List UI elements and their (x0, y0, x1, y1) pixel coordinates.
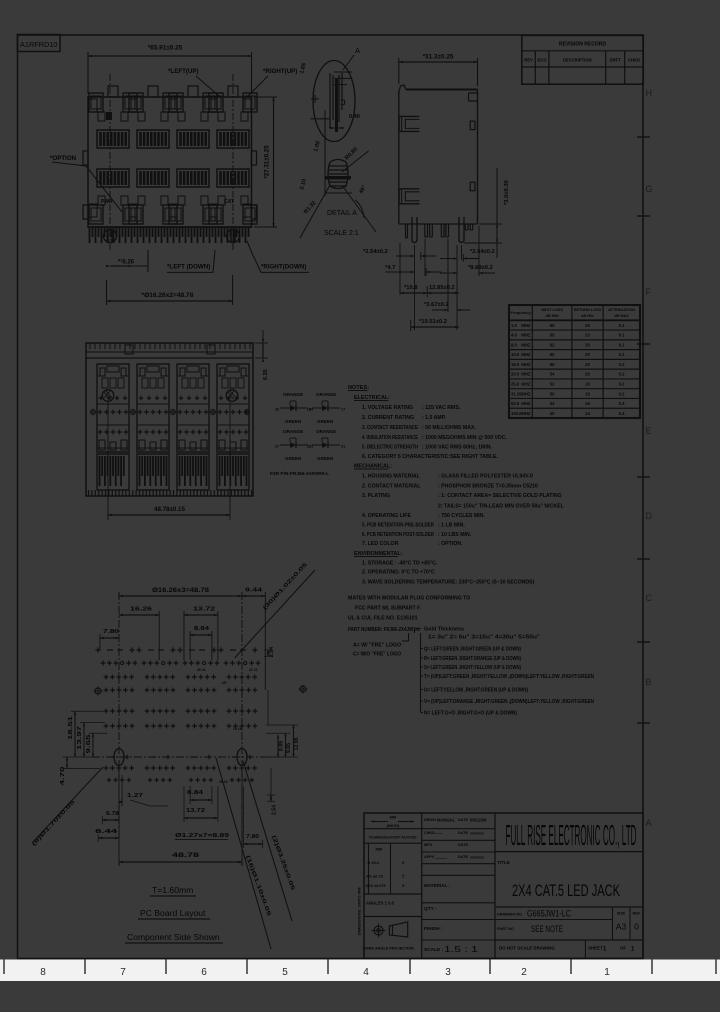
svg-text:4. OPERATING LIFE: 4. OPERATING LIFE (362, 513, 411, 519)
svg-text:TOLERANCES EXCEPT AS NOTED: TOLERANCES EXCEPT AS NOTED (369, 836, 417, 840)
svg-text:U= LEFT:YELLOW ,RIGHT:GREEN (U: U= LEFT:YELLOW ,RIGHT:GREEN (UP & DOWN) (424, 688, 528, 694)
svg-text:F: F (646, 287, 652, 297)
pcb dim 16.26x3=48.78 (119, 587, 242, 600)
svg-text:CHKD: CHKD (424, 831, 435, 835)
svg-text:B: B (646, 677, 652, 687)
svg-text:ATTENUATION: ATTENUATION (608, 308, 635, 312)
title block units cell (364, 815, 422, 829)
bottom view outline (86, 343, 253, 496)
svg-text:4: 4 (363, 967, 369, 978)
svg-text:ANGLES ± 0.5: ANGLES ± 0.5 (366, 901, 395, 906)
svg-text:UL & CUL FILE NO. E135101: UL & CUL FILE NO. E135101 (348, 616, 418, 622)
dimension 2.54 right (440, 249, 495, 262)
front view port windows row 1 (97, 130, 249, 148)
svg-text:MM: MM (390, 815, 397, 820)
svg-text:DRAWING NO.: DRAWING NO. (497, 913, 523, 917)
dimension 48.78 bottom view (108, 402, 230, 520)
svg-text:(INCH): (INCH) (387, 823, 400, 828)
svg-text:20: 20 (585, 342, 590, 347)
svg-text:REV: REV (633, 912, 641, 916)
side view latches (399, 116, 475, 203)
svg-text:62: 62 (550, 342, 555, 347)
svg-text:*OPTION: *OPTION (50, 155, 77, 162)
cat5 characteristics table (509, 305, 640, 418)
svg-text:PART NUMBER: FRJ66-2X4JW1-L: PART NUMBER: FRJ66-2X4JW1-L (348, 627, 421, 633)
sheet row (499, 940, 635, 959)
dimension 8.89 (440, 265, 495, 274)
svg-text:MM: MM (376, 847, 383, 852)
pcb dim 1.27x7=8.89 (175, 833, 230, 840)
side view extension lines (400, 226, 479, 330)
svg-text:ECO: ECO (538, 58, 548, 63)
svg-text:REVISION RECORD: REVISION RECORD (559, 42, 606, 48)
svg-text:3: 3 (445, 967, 451, 978)
svg-text:7.80: 7.80 (246, 834, 259, 840)
svg-text:18.51: 18.51 (68, 715, 74, 740)
svg-text:0.1: 0.1 (619, 323, 625, 328)
svg-text:: 1000 VAC RMS 60Hz, 1MIN.: : 1000 VAC RMS 60Hz, 1MIN. (422, 445, 493, 451)
svg-text:56: 56 (550, 362, 555, 367)
frame zone ticks right edge (637, 137, 650, 723)
drawing number cell (495, 909, 613, 920)
pcb caption (125, 885, 223, 943)
svg-text:Gold Thickness: Gold Thickness (424, 627, 464, 633)
svg-text:27: 27 (275, 445, 279, 449)
dimension 6.26 (106, 250, 148, 272)
svg-text:23: 23 (585, 333, 590, 338)
svg-text:A: A (355, 46, 360, 55)
zone letters right edge (646, 88, 653, 828)
svg-text:DATE: DATE (458, 855, 469, 859)
svg-text:*LEFT (DOWN): *LEFT (DOWN) (167, 264, 210, 271)
svg-text:MHZ: MHZ (521, 372, 531, 377)
title block sign rows (422, 818, 495, 876)
svg-text:ORANGE: ORANGE (316, 392, 336, 397)
svg-text:7. LED COLOR: 7. LED COLOR (362, 541, 399, 547)
pcb dim 13.72 bottom (184, 786, 218, 822)
svg-text:CAT: CAT (224, 199, 234, 205)
svg-text:0.3: 0.3 (619, 401, 625, 406)
svg-text:*2.54±0.2: *2.54±0.2 (363, 249, 388, 255)
sheet id label A1RFRD10 (18, 35, 61, 52)
svg-text:1. HOUSING MATERIAL: 1. HOUSING MATERIAL (362, 474, 421, 480)
svg-text:26: 26 (275, 408, 279, 412)
pcb dim 8.84 top (190, 626, 212, 660)
svg-text:: 1: CONTACT AREA= SELECTIVE G: : 1: CONTACT AREA= SELECTIVE GOLD PLATIN… (438, 493, 562, 499)
svg-text:0.2: 0.2 (619, 362, 625, 367)
svg-text:: 10 LBS MIN.: : 10 LBS MIN. (438, 532, 472, 538)
svg-text:C: C (646, 593, 653, 603)
svg-text:xx/xx/xx: xx/xx/xx (470, 856, 484, 860)
svg-text:*10.8: *10.8 (404, 285, 418, 291)
detail A dim 2.10 (299, 110, 325, 196)
svg-text:6. CATEGORY 5 CHARACTERISTIC:S: 6. CATEGORY 5 CHARACTERISTIC:SEE RIGHT T… (362, 454, 498, 460)
svg-text:8: 8 (40, 967, 46, 978)
svg-text:2. CURRENT RATING: 2. CURRENT RATING (362, 415, 414, 421)
label OPTION (50, 155, 122, 212)
svg-text:4.70: 4.70 (60, 767, 66, 786)
svg-text:0.4: 0.4 (619, 411, 625, 416)
svg-text:*27.31±0.25: *27.31±0.25 (264, 145, 271, 179)
svg-text:2X4 CAT.5 LED JACK: 2X4 CAT.5 LED JACK (512, 882, 620, 900)
svg-text:*RIGHT(UP): *RIGHT(UP) (263, 68, 297, 75)
svg-text:GREEN: GREEN (285, 419, 302, 424)
svg-text:CHKD: CHKD (628, 58, 640, 63)
dimension 6.35 bottom view (255, 330, 269, 380)
svg-text:A3: A3 (616, 922, 627, 932)
svg-text:7.80: 7.80 (103, 629, 119, 635)
pcb dim 7.80 right (243, 786, 262, 848)
pcb dim 8.44 (95, 829, 119, 842)
svg-text:10.0: 10.0 (511, 352, 520, 357)
svg-text:18: 18 (585, 382, 590, 387)
svg-text:G: G (646, 184, 653, 194)
bottom view bottom ticks (89, 490, 252, 496)
title block finish cell (422, 926, 495, 940)
pcb dim 6.78 (102, 811, 119, 824)
svg-text:8.89: 8.89 (279, 741, 285, 751)
dimension 10.8 (400, 285, 427, 297)
svg-text:*19.51±0.2: *19.51±0.2 (419, 319, 447, 325)
svg-text:8.0: 8.0 (511, 342, 517, 347)
svg-text:40: 40 (550, 411, 555, 416)
svg-text:MHZ: MHZ (521, 323, 531, 328)
dimension 12.85 (427, 285, 459, 294)
svg-text:1.0: 1.0 (511, 323, 517, 328)
notes text block (348, 385, 565, 633)
bottom view port groups (97, 364, 249, 490)
svg-text:1.5 : 1: 1.5 : 1 (444, 944, 478, 954)
svg-text:: PHOSPHOR BRONZE T=0.35mm C52: : PHOSPHOR BRONZE T=0.35mm C5210 (438, 484, 538, 490)
svg-text:: 1000 MEGOHMS MIN @ 500 VDC.: : 1000 MEGOHMS MIN @ 500 VDC. (422, 435, 507, 441)
part no cell (495, 924, 643, 940)
svg-text:62.5: 62.5 (511, 401, 520, 406)
svg-text:dB MIN: dB MIN (546, 314, 559, 318)
svg-text:QTY :: QTY : (424, 906, 437, 912)
svg-text:OF: OF (620, 946, 626, 951)
svg-text:19 18: 19 18 (233, 727, 242, 731)
label LEFT UP (168, 68, 219, 96)
svg-text:48.78±0.15: 48.78±0.15 (154, 506, 185, 513)
svg-text:16: 16 (585, 401, 590, 406)
svg-text:2. OPERATING: 0°C TO +70°C: 2. OPERATING: 0°C TO +70°C (362, 570, 435, 576)
company name (495, 820, 643, 852)
dimension 31.3 (399, 54, 478, 87)
svg-text:T=1.60mm: T=1.60mm (152, 885, 193, 895)
svg-text:PC Board Layout: PC Board Layout (140, 908, 206, 918)
svg-text:*3.0±0.30: *3.0±0.30 (504, 180, 510, 205)
bottom view gap holes (90, 409, 250, 415)
svg-text:MHZ: MHZ (521, 333, 531, 338)
svg-text:*2.54±0.2: *2.54±0.2 (470, 249, 495, 255)
svg-text:1. VOLTAGE RATING: 1. VOLTAGE RATING (362, 405, 413, 411)
svg-text:3. CONTACT RESISTANCE: 3. CONTACT RESISTANCE (362, 425, 418, 431)
svg-text:C= W/O "FRE" LOGO: C= W/O "FRE" LOGO (353, 652, 401, 658)
pcb leader 8 holes 1.70 (31, 767, 103, 847)
svg-text:: 50 MILLIOHMS MAX.: : 50 MILLIOHMS MAX. (422, 425, 476, 431)
svg-text:1: 1 (604, 967, 610, 978)
detail A lower contact section (325, 160, 352, 194)
title block tolerance table (364, 843, 422, 894)
svg-text:DATE: DATE (458, 831, 469, 835)
svg-text:GREEN: GREEN (285, 456, 302, 461)
svg-text:DRFT: DRFT (610, 58, 622, 63)
svg-text:52: 52 (550, 382, 555, 387)
svg-text:Component Side Shown: Component Side Shown (127, 932, 220, 942)
front view pin comb (88, 227, 252, 243)
svg-text:6.78: 6.78 (106, 811, 119, 817)
svg-text:G665JW1-LC: G665JW1-LC (527, 909, 571, 919)
svg-text:R= LEFT:GREEN ,RIGHT:ORANGE (U: R= LEFT:GREEN ,RIGHT:ORANGE (UP & DOWN) (424, 656, 521, 662)
dimension 3.0 (464, 168, 510, 258)
svg-text:MANUAL: MANUAL (437, 818, 456, 823)
svg-text:A= W/ "FRE" LOGO: A= W/ "FRE" LOGO (353, 643, 401, 649)
svg-text:FULL RISE ELECTRONIC CO., LTD: FULL RISE ELECTRONIC CO., LTD (506, 820, 637, 852)
svg-text:*3.67±0.2: *3.67±0.2 (424, 302, 449, 308)
detail A label A (343, 46, 360, 70)
svg-text:REV: REV (524, 58, 533, 63)
svg-text:NEXT LOSS: NEXT LOSS (541, 308, 563, 312)
svg-text:25.0: 25.0 (511, 382, 520, 387)
label RIGHT DOWN (247, 241, 309, 272)
svg-text:PWR: PWR (101, 199, 113, 205)
svg-text:6. PCB RETENTION POST-SOLDER: 6. PCB RETENTION POST-SOLDER (362, 532, 434, 538)
pcb oval mounting holes (114, 749, 247, 766)
detail A dim R0.80 (342, 147, 369, 172)
svg-text:13.72: 13.72 (193, 607, 215, 613)
svg-text:V= (UP)LEFT:ORANGE ,RIGHT:GREE: V= (UP)LEFT:ORANGE ,RIGHT:GREEN ,(DOWN)L… (424, 699, 594, 705)
svg-text:ORANGE: ORANGE (316, 429, 336, 434)
pcb leader 16 holes 1.10 (216, 758, 272, 949)
svg-text:DRWN: DRWN (424, 818, 436, 822)
svg-text:1.27: 1.27 (127, 793, 143, 799)
svg-text:2: 2 (521, 967, 527, 978)
svg-text:4.0: 4.0 (511, 333, 517, 338)
svg-text:Ø1.27x7=8.89: Ø1.27x7=8.89 (175, 833, 230, 839)
pcb right vertical dims (264, 647, 300, 815)
svg-text:3. WAVE SOLDERING TEMPERATURE:: 3. WAVE SOLDERING TEMPERATURE: 230°C~250… (362, 580, 535, 586)
svg-text:*4.7: *4.7 (385, 265, 395, 271)
detail A bubble (313, 61, 355, 142)
svg-text:0.1: 0.1 (619, 333, 625, 338)
svg-text:MATES WITH MODULAR PLUG CONFOR: MATES WITH MODULAR PLUG CONFORMING TO (348, 596, 470, 602)
bottom view screw holes (102, 390, 238, 402)
svg-text:*¹6.26: *¹6.26 (118, 259, 135, 266)
svg-text:1. STORAGE : -40°C TO +85°C.: 1. STORAGE : -40°C TO +85°C. (362, 561, 438, 567)
pcb leader 2 holes 3.25 (243, 761, 296, 921)
svg-text:.X ±0.2: .X ±0.2 (367, 860, 380, 865)
pcb hole pattern (95, 647, 260, 782)
pcb dim 9.44 (242, 588, 265, 691)
svg-text:3. PLATING: 3. PLATING (362, 493, 390, 499)
svg-text:DO NOT SCALE DRAWING: DO NOT SCALE DRAWING (499, 946, 555, 951)
svg-text:4. INSULATION RESISTANCE: 4. INSULATION RESISTANCE (362, 435, 418, 441)
svg-text:*8.89±0.2: *8.89±0.2 (468, 265, 493, 271)
svg-text:N= LEFT:G+O ,RIGHT:G+O (UP & D: N= LEFT:G+O ,RIGHT:G+O (UP & DOWN) (424, 711, 517, 717)
detail A dim R1.32 (300, 185, 330, 238)
svg-text:D: D (646, 511, 653, 521)
front view logo mark (106, 112, 112, 120)
svg-text:30 22: 30 22 (197, 668, 206, 672)
title cell (495, 860, 643, 907)
svg-text:2.54: 2.54 (272, 805, 278, 815)
svg-text:: 125 VAC RMS.: : 125 VAC RMS. (422, 405, 461, 411)
svg-text:SHEET: SHEET (588, 946, 603, 951)
svg-text:25: 25 (585, 323, 590, 328)
svg-text:.XXX ±0.075: .XXX ±0.075 (365, 884, 386, 888)
svg-text:APPV: APPV (424, 855, 435, 859)
svg-text:22 21: 22 21 (249, 668, 258, 672)
front view mounting posts (104, 230, 240, 243)
drawing frame border (18, 35, 644, 959)
svg-text:E: E (646, 426, 652, 436)
svg-text:9.44: 9.44 (245, 588, 263, 594)
svg-text:20: 20 (585, 372, 590, 377)
pcb dim 7.80 left (100, 629, 119, 650)
dimension 27.31 (254, 97, 277, 227)
svg-text:20: 20 (585, 362, 590, 367)
svg-text:6.35: 6.35 (263, 370, 269, 381)
side view pins (406, 217, 473, 243)
pcb leader 30 holes 1.02 (235, 562, 315, 658)
side view body outline (399, 85, 478, 224)
svg-text:2. CONTACT MATERIAL: 2. CONTACT MATERIAL (362, 484, 421, 490)
front view body outline (88, 97, 252, 227)
svg-text:: 1.5 AMP.: : 1.5 AMP. (422, 415, 446, 421)
svg-text:0.1: 0.1 (619, 342, 625, 347)
svg-text:13.97: 13.97 (77, 726, 83, 750)
revision record table (522, 35, 644, 84)
svg-text:——: —— (435, 831, 443, 836)
svg-text:60: 60 (550, 352, 555, 357)
svg-text:T= (UP)LEFT:GREEN ,RIGHT:YELLO: T= (UP)LEFT:GREEN ,RIGHT:YELLOW ,(DOWN)L… (424, 674, 594, 680)
svg-text:8.84: 8.84 (187, 790, 204, 796)
dimension 19.51 (411, 319, 459, 331)
detail A dim 45 (344, 185, 376, 232)
pcb centerlines (92, 592, 280, 868)
label RIGHT UP (248, 68, 297, 96)
svg-text:9.65: 9.65 (286, 743, 292, 753)
dimension 16.26x2=48.78 (107, 275, 233, 305)
svg-text:48.78: 48.78 (172, 853, 200, 859)
svg-text:2: TAILS= 150u" TIN-LEAD MIN O: 2: TAILS= 150u" TIN-LEAD MIN OVER 50u" N… (438, 504, 565, 510)
svg-text:MHZ: MHZ (521, 362, 531, 367)
label LEFT DOWN (167, 250, 215, 272)
size rev cells (613, 907, 641, 940)
dimension 3.67 (424, 302, 470, 311)
svg-text:0: 0 (634, 922, 639, 932)
svg-text:2.54: 2.54 (269, 647, 275, 657)
front view top LED housings (89, 86, 257, 121)
detail A title (324, 210, 359, 237)
title block outer (364, 813, 643, 959)
part number legend (353, 627, 594, 717)
svg-text:12.95: 12.95 (294, 737, 300, 750)
LED circuit legend (270, 392, 345, 477)
svg-text:5. PCB RETENTION PRE-SOLDER: 5. PCB RETENTION PRE-SOLDER (362, 523, 434, 529)
svg-text:5: 5 (282, 967, 288, 978)
svg-text:THIRD ANGLE PROJECTION: THIRD ANGLE PROJECTION (363, 947, 415, 951)
svg-text:H: H (646, 88, 653, 98)
svg-text:: GLASS FILLED POLYESTER UL94V: : GLASS FILLED POLYESTER UL94V-0 (438, 474, 533, 480)
svg-text:*65.91±0.25: *65.91±0.25 (148, 45, 183, 52)
svg-text:Frequency: Frequency (510, 310, 531, 315)
title block tolerances header (364, 836, 422, 844)
svg-text:14: 14 (585, 411, 590, 416)
svg-text:22: 22 (307, 445, 311, 449)
front view side tabs (83, 151, 257, 219)
svg-text:0.40: 0.40 (349, 114, 360, 120)
svg-text:0.1: 0.1 (619, 352, 625, 357)
svg-text:xx/xx/xx: xx/xx/xx (470, 832, 484, 836)
svg-text:*LEFT(UP): *LEFT(UP) (168, 68, 199, 75)
svg-text:PART NO: PART NO (497, 927, 514, 931)
svg-text:TITLE: TITLE (497, 860, 510, 865)
svg-text:: 1 LB MIN.: : 1 LB MIN. (438, 523, 465, 529)
svg-text:8.44: 8.44 (95, 829, 119, 835)
svg-text:GREEN: GREEN (317, 419, 334, 424)
svg-text:S= LEFT:GREEN ,RIGHT:YELLOW (U: S= LEFT:GREEN ,RIGHT:YELLOW (UP & DOWN) (424, 665, 521, 671)
svg-text:50: 50 (550, 391, 555, 396)
dimension 4.7 (385, 265, 441, 276)
front view bottom LED housings (89, 196, 257, 224)
svg-text:0.2: 0.2 (619, 382, 625, 387)
svg-text:9.65: 9.65 (86, 733, 92, 753)
svg-text:RETURN LOSS: RETURN LOSS (574, 308, 602, 312)
svg-text:5. DIELECTRIC STRENGTH: 5. DIELECTRIC STRENGTH (362, 445, 418, 451)
svg-text:UP: UP (222, 681, 227, 685)
svg-text:*RIGHT(DOWN): *RIGHT(DOWN) (261, 264, 306, 271)
svg-text:44: 44 (550, 401, 555, 406)
svg-text:MHZ: MHZ (521, 401, 531, 406)
svg-text:FINISH :: FINISH : (424, 926, 443, 932)
svg-text:MHZ: MHZ (521, 342, 531, 347)
svg-text:MATERIAL :: MATERIAL : (424, 883, 451, 888)
svg-text:Ø16.26x3=48.78: Ø16.26x3=48.78 (152, 587, 210, 594)
bottom zone number strip (0, 960, 720, 982)
svg-text:20: 20 (585, 352, 590, 357)
svg-text:MHZ: MHZ (521, 352, 531, 357)
svg-text:08/12/06: 08/12/06 (470, 818, 487, 823)
pcb ground holes (94, 685, 308, 696)
svg-text:ORANGE: ORANGE (283, 392, 303, 397)
svg-text:0.2: 0.2 (619, 391, 625, 396)
pcb dim 8.84 bottom (187, 786, 212, 804)
title block scale cell (424, 944, 478, 954)
svg-text:*31.3±0.25: *31.3±0.25 (423, 54, 454, 61)
title block qty cell (422, 906, 495, 920)
svg-text:8.84: 8.84 (194, 626, 210, 632)
pcb dim 1.27 (119, 775, 168, 806)
pcb left vertical dims (60, 711, 107, 785)
svg-text:DETAIL A: DETAIL A (327, 210, 357, 217)
svg-text:A1RFRD10: A1RFRD10 (20, 40, 58, 49)
svg-text:———: ——— (435, 855, 447, 860)
svg-text:FCC PART 68, SUBPART F.: FCC PART 68, SUBPART F. (355, 606, 422, 612)
svg-text:54: 54 (550, 372, 555, 377)
svg-text:dB Min: dB Min (581, 314, 594, 318)
svg-text:20.0: 20.0 (511, 372, 520, 377)
svg-text:SEE NOTE: SEE NOTE (531, 924, 563, 935)
svg-text:SCALE 2:1: SCALE 2:1 (324, 230, 359, 237)
dimension 2.54 left (363, 249, 436, 260)
front view centerlines (110, 74, 233, 252)
svg-text:6: 6 (201, 967, 207, 978)
svg-text:SCALE :: SCALE : (424, 947, 444, 953)
svg-text:12.85±0.2: 12.85±0.2 (429, 285, 455, 291)
front view port windows row 2 (97, 169, 249, 187)
pcb pin numbers (197, 668, 258, 784)
